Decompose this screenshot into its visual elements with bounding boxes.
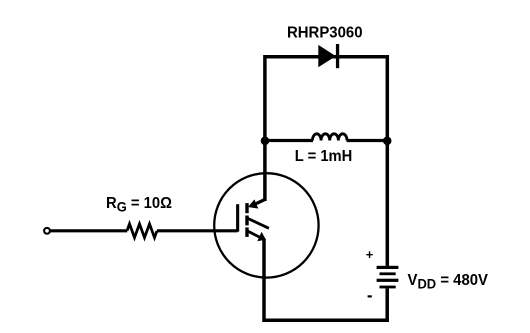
Q1 channel bar segment 2 (245, 216, 248, 226)
label - (battery negative) (368, 295, 372, 297)
Q1 middle diagonal (248, 219, 269, 229)
wire: gate lead right of resistor (157, 229, 238, 232)
terminal: gate input (open circle) (44, 228, 50, 234)
Q1 gate bar (236, 204, 239, 232)
Q1 channel bar segment 3 (245, 227, 248, 237)
resistor RG zigzag (127, 224, 157, 238)
battery VDD plate 3 (long) (377, 279, 399, 282)
diode D1 cathode bar (336, 44, 339, 68)
Q1 emitter diagonal (248, 231, 262, 238)
battery VDD plate 4 (short, -) (380, 286, 396, 289)
Q1 channel bar segment 1 (245, 203, 248, 213)
Q1 collector arrowhead (248, 199, 258, 208)
svg-text:L = 1mH: L = 1mH (295, 148, 353, 165)
inductor L1 coil (312, 134, 347, 141)
junction node: right (inductor/cathode/VDD) (383, 137, 392, 146)
wire: inductor row right segment (347, 139, 388, 142)
wire: gate lead left of resistor (50, 229, 127, 232)
junction node: left (drain/anode/inductor) (261, 137, 270, 146)
wire: inductor row left segment (264, 139, 313, 142)
svg-text:RG = 10Ω: RG = 10Ω (106, 195, 172, 215)
svg-text:RHRP3060: RHRP3060 (287, 25, 363, 42)
battery VDD plate 1 (long, +) (377, 266, 399, 269)
Q1 emitter arrowhead (257, 232, 266, 242)
diode D1 RHRP3060 (anode triangle) (318, 45, 336, 67)
Q1 collector diagonal (255, 200, 265, 205)
battery VDD plate 2 (short) (380, 272, 396, 275)
wire: left rail / top wire / right rail (collector loop) (265, 57, 387, 266)
wire: emitter lead / bottom wire / battery negative lead (264, 239, 387, 321)
transistor Q1 body circle (214, 173, 318, 277)
svg-text:+: + (366, 247, 374, 262)
